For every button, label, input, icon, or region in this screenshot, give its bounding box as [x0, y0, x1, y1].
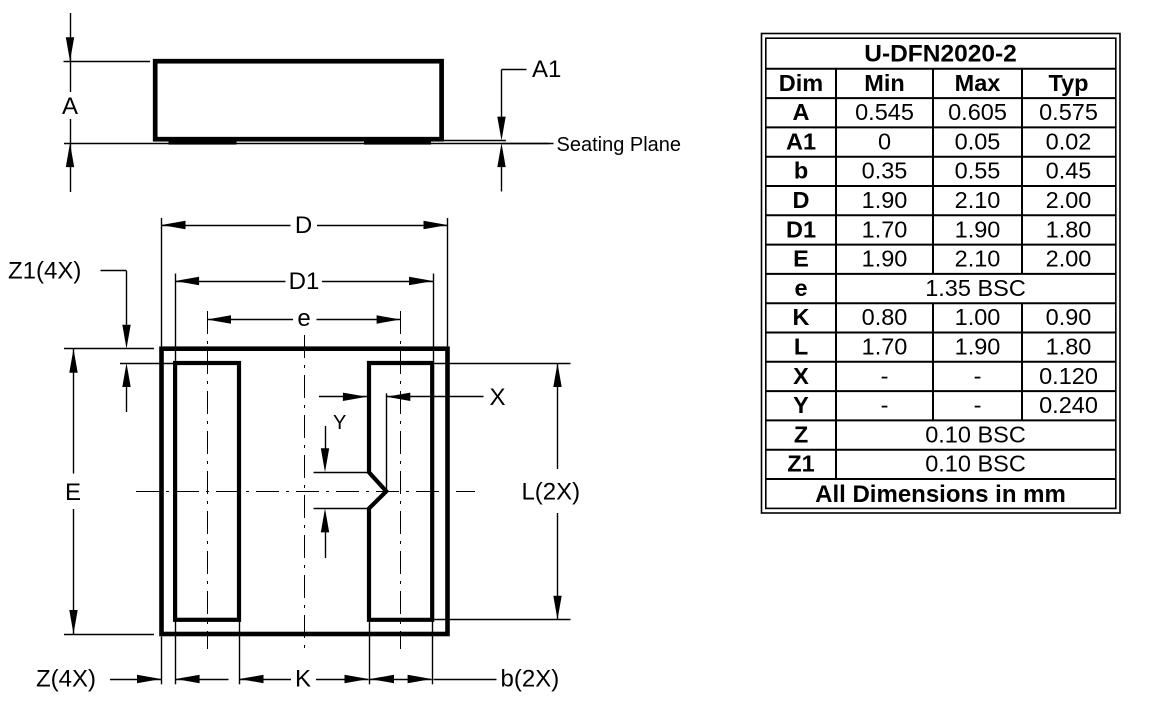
- svg-text:-: -: [881, 363, 889, 389]
- svg-text:0.10 BSC: 0.10 BSC: [925, 421, 1026, 447]
- svg-text:1.00: 1.00: [955, 304, 1001, 330]
- svg-text:D1: D1: [786, 216, 816, 242]
- svg-text:E: E: [65, 479, 81, 506]
- svg-text:0.240: 0.240: [1039, 392, 1098, 418]
- svg-text:e: e: [794, 275, 807, 301]
- svg-text:Y: Y: [793, 392, 809, 418]
- svg-text:1.80: 1.80: [1046, 216, 1092, 242]
- svg-text:Dim: Dim: [779, 70, 823, 96]
- svg-text:1.70: 1.70: [862, 216, 908, 242]
- svg-text:e: e: [297, 305, 310, 332]
- svg-text:0: 0: [878, 128, 891, 154]
- svg-text:b: b: [794, 158, 808, 184]
- svg-text:2.10: 2.10: [955, 187, 1001, 213]
- svg-text:L(2X): L(2X): [521, 479, 580, 506]
- svg-text:K: K: [793, 304, 810, 330]
- svg-text:1.90: 1.90: [955, 216, 1001, 242]
- svg-text:-: -: [974, 392, 982, 418]
- svg-text:X: X: [793, 363, 809, 389]
- svg-text:0.35: 0.35: [862, 158, 908, 184]
- svg-text:L: L: [794, 334, 808, 360]
- svg-text:X: X: [489, 384, 505, 411]
- svg-text:1.90: 1.90: [862, 187, 908, 213]
- svg-text:1.90: 1.90: [955, 334, 1001, 360]
- svg-text:0.02: 0.02: [1046, 128, 1092, 154]
- svg-text:Z1(4X): Z1(4X): [8, 258, 81, 285]
- svg-text:U-DFN2020-2: U-DFN2020-2: [864, 41, 1017, 68]
- svg-text:A1: A1: [786, 128, 816, 154]
- svg-text:0.545: 0.545: [855, 99, 914, 125]
- svg-text:1.80: 1.80: [1046, 334, 1092, 360]
- svg-text:0.90: 0.90: [1046, 304, 1092, 330]
- svg-text:0.575: 0.575: [1039, 99, 1098, 125]
- svg-text:2.00: 2.00: [1046, 187, 1092, 213]
- svg-text:1.35 BSC: 1.35 BSC: [925, 275, 1026, 301]
- svg-text:0.05: 0.05: [955, 128, 1001, 154]
- svg-text:Z1: Z1: [787, 451, 814, 477]
- svg-text:A: A: [62, 93, 78, 120]
- svg-text:Y: Y: [333, 412, 346, 434]
- svg-text:Min: Min: [864, 70, 904, 96]
- svg-text:Typ: Typ: [1048, 70, 1088, 96]
- svg-text:E: E: [793, 246, 809, 272]
- svg-text:1.90: 1.90: [862, 246, 908, 272]
- svg-text:All Dimensions in mm: All Dimensions in mm: [815, 481, 1066, 508]
- svg-text:Max: Max: [955, 70, 1001, 96]
- svg-text:2.00: 2.00: [1046, 246, 1092, 272]
- svg-text:A: A: [793, 99, 810, 125]
- svg-text:A1: A1: [532, 56, 561, 83]
- svg-text:0.605: 0.605: [948, 99, 1007, 125]
- svg-text:0.80: 0.80: [862, 304, 908, 330]
- svg-text:b(2X): b(2X): [501, 666, 560, 693]
- svg-text:Z: Z: [794, 421, 808, 447]
- svg-text:1.70: 1.70: [862, 334, 908, 360]
- svg-text:2.10: 2.10: [955, 246, 1001, 272]
- svg-text:0.10 BSC: 0.10 BSC: [925, 451, 1026, 477]
- svg-text:0.120: 0.120: [1039, 363, 1098, 389]
- svg-text:Z(4X): Z(4X): [36, 666, 96, 693]
- svg-text:K: K: [295, 666, 311, 693]
- svg-text:D1: D1: [289, 268, 320, 295]
- svg-text:0.45: 0.45: [1046, 158, 1092, 184]
- svg-text:Seating Plane: Seating Plane: [557, 134, 682, 156]
- svg-text:-: -: [881, 392, 889, 418]
- svg-text:D: D: [295, 212, 312, 239]
- svg-text:0.55: 0.55: [955, 158, 1001, 184]
- svg-text:D: D: [793, 187, 810, 213]
- svg-text:-: -: [974, 363, 982, 389]
